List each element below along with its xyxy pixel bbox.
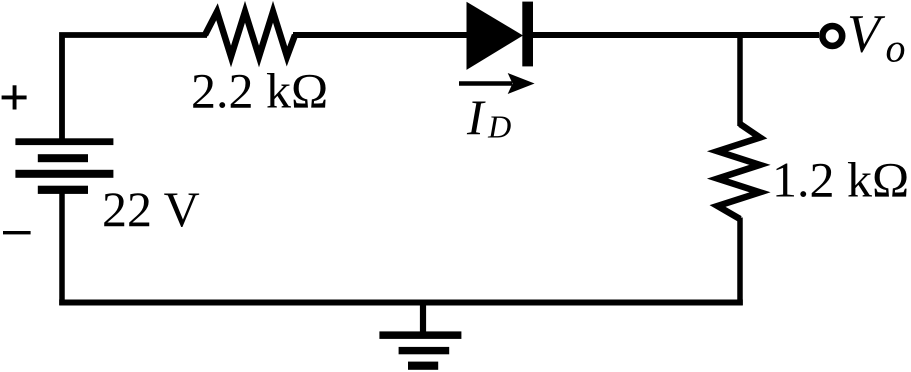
diode D1 cathode bar: [522, 2, 533, 67]
wire from resistor R2 to bottom net: [737, 218, 743, 306]
wire from battery + terminal up and along top to resistor R1: [62, 35, 207, 144]
svg-text:1.2 kΩ: 1.2 kΩ: [772, 151, 909, 207]
svg-text:Vo: Vo: [847, 3, 906, 70]
battery plus sign: [2, 85, 27, 109]
wire from top net down to resistor R2: [737, 32, 743, 126]
wire from battery - terminal down to bottom net: [59, 189, 65, 305]
wire bottom net (ground rail): [59, 300, 743, 306]
svg-text:22 V: 22 V: [102, 181, 200, 237]
svg-text:ID: ID: [466, 89, 511, 145]
output terminal Vo (open circle): [822, 26, 842, 46]
svg-text:2.2 kΩ: 2.2 kΩ: [191, 63, 328, 119]
wire from diode D1 cathode to output terminal Vo: [531, 32, 819, 38]
wire from resistor R1 to diode D1 anode: [293, 32, 468, 38]
resistor R2 zigzag: [718, 124, 761, 219]
current arrow ID: [459, 73, 535, 94]
diode D1 triangle (anode): [467, 2, 524, 70]
ground symbol: [379, 300, 461, 370]
resistor R1 zigzag: [205, 12, 295, 57]
battery V1 plates: [15, 138, 113, 194]
battery minus sign: [3, 231, 31, 234]
